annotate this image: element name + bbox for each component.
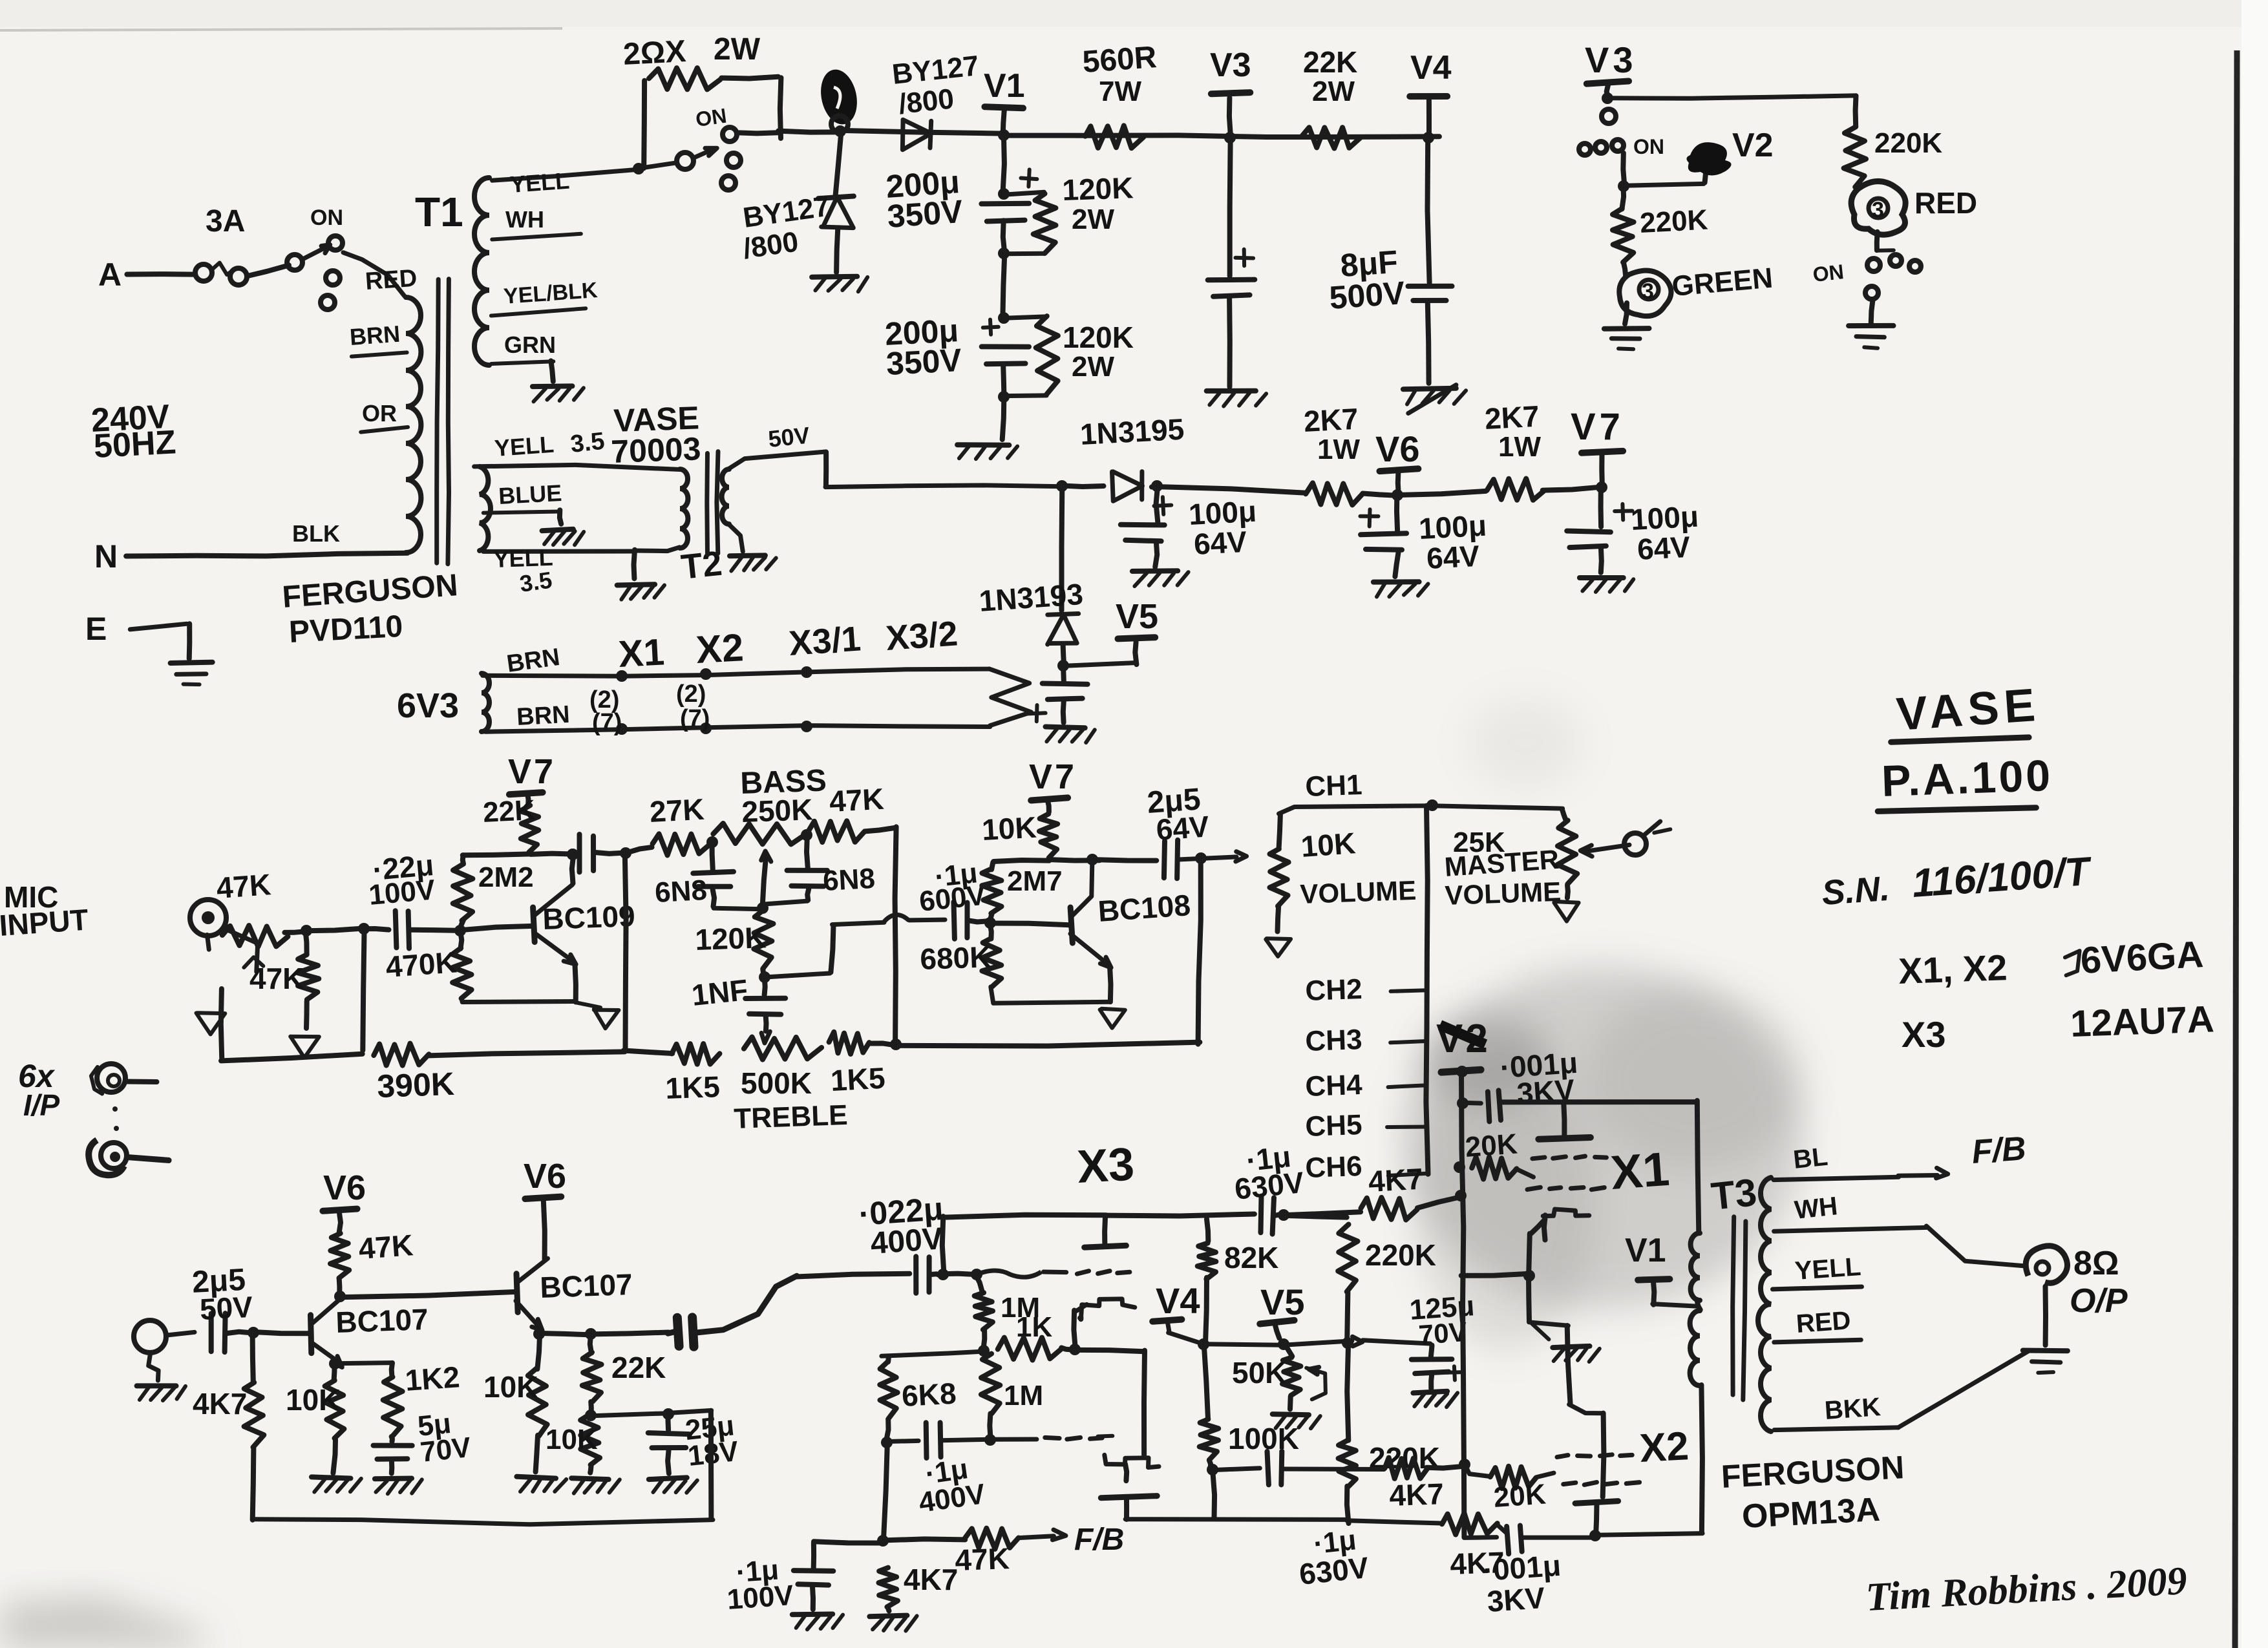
ground arrow BC109 emitter: [575, 1002, 619, 1028]
svg-text:1W: 1W: [1317, 434, 1360, 465]
resistor 1K + node row: [882, 1311, 1081, 1360]
svg-text:2W: 2W: [1312, 76, 1355, 107]
svg-text:GRN: GRN: [504, 332, 556, 358]
capacitor 2u5 64V: [1146, 782, 1247, 878]
capacitor .001u 3KV top: [1457, 1046, 1696, 1122]
svg-text:1NF: 1NF: [690, 973, 750, 1012]
resistor 10K emitter 1: [286, 1358, 361, 1492]
scan shadow bottom-left: [0, 1596, 213, 1648]
svg-text:BKK: BKK: [1824, 1393, 1882, 1425]
svg-text:22K: 22K: [1303, 45, 1357, 79]
label 240V 50Hz: [90, 398, 177, 465]
tap label BLK: [292, 520, 340, 547]
base wire BC108: [990, 924, 1069, 925]
standby switch: [638, 104, 741, 190]
junction to driver rail: [937, 1216, 949, 1280]
wire 50V to diode 1N3193: [1059, 486, 1065, 610]
svg-text:1N3195: 1N3195: [1079, 412, 1185, 451]
lower link wire: [1076, 1350, 1145, 1455]
coupling capacitor to driver: [668, 1276, 796, 1347]
resistor 22K + 10K + 25u 18V: [546, 1333, 666, 1494]
wire V3 to lamps: [1608, 96, 1855, 98]
FB bus: [814, 1539, 965, 1543]
channel labels CH2-CH6: [1305, 806, 1428, 1184]
tube X3 lower triode: [1045, 1436, 1159, 1519]
cathode wire upper: [1074, 1304, 1086, 1349]
diode BY127/800 shunt: [741, 131, 868, 291]
node V4: [1410, 49, 1451, 143]
svg-text:TREBLE: TREBLE: [734, 1099, 849, 1135]
tap label YEL/BLK: [491, 278, 599, 316]
grid wire X3 upper: [942, 1269, 1066, 1280]
tone output jog wire: [765, 914, 945, 977]
capacitor 125u 70V: [1408, 1290, 1476, 1407]
output jack 8 ohm: [2023, 1245, 2128, 1373]
plate rail right vertical: [1697, 1101, 1699, 1233]
capacitor 25u 18V: [589, 1408, 740, 1493]
resistor 47K tone: [809, 782, 895, 842]
resistor 470K: [385, 930, 576, 1002]
svg-text:64V: 64V: [1426, 539, 1481, 575]
svg-text:680K: 680K: [920, 940, 992, 976]
resistor 4K7 top rail: [1283, 1162, 1459, 1220]
tap label GRN + ground: [491, 332, 584, 401]
junction to NFB bus: [358, 923, 370, 1050]
junction down to NFB bus: [620, 847, 631, 1050]
page edge line: [2242, 0, 2268, 1648]
svg-text:V5: V5: [1116, 597, 1158, 636]
svg-text:2ΩX: 2ΩX: [622, 34, 687, 72]
lamp GREEN: [1604, 262, 1774, 350]
capacitor .22u 100V input: [364, 848, 457, 949]
resistor 1M second: [981, 1354, 1043, 1446]
svg-text:100K: 100K: [1228, 1422, 1299, 1455]
resistor 2K7 1W first: [1303, 402, 1362, 505]
svg-text:3: 3: [1872, 198, 1884, 222]
svg-text:1W: 1W: [1498, 431, 1541, 463]
svg-text:X3: X3: [1902, 1014, 1946, 1055]
title VASE underlined: [1891, 679, 2042, 743]
svg-text:4K7: 4K7: [193, 1387, 247, 1421]
svg-text:4K7: 4K7: [904, 1563, 958, 1596]
svg-text:3.5: 3.5: [569, 428, 606, 458]
svg-text:4K7: 4K7: [1450, 1545, 1505, 1581]
node V1 screen tap: [1625, 1232, 1698, 1306]
svg-text:V4: V4: [1156, 1280, 1200, 1321]
svg-text:3: 3: [1642, 279, 1654, 304]
resistor 22K 2W: [1302, 45, 1360, 149]
capacitor V3 decoupling: [1207, 137, 1266, 407]
node V7: [1543, 406, 1624, 493]
svg-text:2K7: 2K7: [1303, 402, 1359, 438]
svg-text:V4: V4: [1410, 49, 1452, 87]
capacitor .22u second + rail: [567, 834, 625, 872]
X2 bottom rail + capacitor .001u 3KV lower: [1465, 1526, 1703, 1618]
6K8 column to FB bus: [884, 1442, 887, 1541]
svg-text:2K7: 2K7: [1484, 399, 1540, 436]
svg-text:390K: 390K: [376, 1066, 454, 1104]
resistor 120K tone: [695, 911, 774, 983]
svg-text:F/B: F/B: [1074, 1523, 1124, 1557]
svg-text:120K: 120K: [1062, 171, 1134, 207]
svg-text:I/P: I/P: [23, 1088, 60, 1122]
svg-text:(7): (7): [592, 709, 622, 736]
node V6 second: [524, 1157, 566, 1260]
svg-text:T1: T1: [415, 189, 463, 235]
capacitor .1u 100V: [726, 1543, 843, 1629]
cathode bus to X2: [1529, 1322, 1604, 1497]
svg-text:V7: V7: [508, 752, 556, 791]
svg-text:70V: 70V: [419, 1431, 473, 1468]
mic jack: [190, 900, 263, 972]
potentiometer TREBLE 500K + 1K5 bus: [624, 1032, 895, 1135]
earth E ground: [85, 611, 213, 684]
driver junction column: [877, 1535, 889, 1547]
junction + wire to 2K7: [1151, 480, 1306, 493]
wire V2 to cathode: [1461, 1274, 1529, 1276]
interstage wire: [339, 1292, 516, 1297]
diode BY127/800 series: [891, 50, 980, 150]
svg-text:47K: 47K: [829, 782, 885, 818]
node V6: [1362, 428, 1419, 501]
svg-text:6V3: 6V3: [397, 686, 459, 725]
svg-text:CH2: CH2: [1305, 973, 1363, 1007]
resistor 10K emitter 2: [483, 1334, 566, 1492]
ink smudge stain: [1403, 966, 1803, 1309]
resistor 220K green branch: [1613, 187, 1709, 262]
svg-text:BL: BL: [1792, 1143, 1829, 1174]
junction base BC108: [984, 917, 996, 929]
svg-text:BC109: BC109: [542, 899, 636, 936]
secondary tap RED: [1774, 1306, 1861, 1342]
junction + resistor 47K shunt: [249, 925, 361, 1058]
svg-text:A: A: [98, 257, 122, 293]
svg-text:V2: V2: [1732, 127, 1774, 164]
tube list X1 X2 6V6GA: [1898, 933, 2204, 991]
potentiometer 10K VOLUME: [1266, 826, 1417, 956]
svg-text:F/B: F/B: [1971, 1130, 2028, 1171]
svg-text:CH3: CH3: [1305, 1024, 1363, 1057]
svg-text:10K: 10K: [483, 1370, 538, 1404]
svg-text:6K8: 6K8: [901, 1377, 957, 1413]
svg-text:S.N.: S.N.: [1821, 869, 1891, 913]
svg-text:12AU7A: 12AU7A: [2070, 998, 2215, 1045]
svg-text:CH1: CH1: [1305, 769, 1363, 803]
svg-text:V6: V6: [323, 1168, 366, 1207]
wire V4 V5 to 125u cap: [1204, 1336, 1430, 1346]
label 120K 2W second: [1063, 321, 1134, 383]
svg-text:82K: 82K: [1224, 1241, 1278, 1274]
fuse 3A: [195, 204, 247, 285]
capacitor .1u 630V lower: [1213, 1452, 1384, 1591]
svg-text:500K: 500K: [741, 1066, 812, 1100]
50V rail wire: [728, 452, 1063, 487]
svg-text:ON: ON: [1812, 260, 1845, 286]
transistor BC109: [533, 849, 636, 964]
resistor 100K: [1200, 1345, 1299, 1518]
svg-text:BC107: BC107: [540, 1267, 633, 1304]
svg-text:BC107: BC107: [335, 1302, 429, 1339]
RCA jack aux 2: [89, 1140, 169, 1175]
svg-text:X1: X1: [1609, 1142, 1671, 1199]
svg-text:350V: 350V: [886, 193, 964, 235]
svg-text:500V: 500V: [1328, 275, 1406, 316]
V2 vertical: [1461, 1071, 1464, 1537]
svg-text:50V: 50V: [767, 421, 811, 452]
svg-text:6N8: 6N8: [654, 874, 708, 909]
svg-text:50K: 50K: [1232, 1356, 1286, 1389]
label 120K 2W first: [1062, 171, 1134, 235]
svg-text:47K: 47K: [215, 867, 272, 905]
svg-text:560R: 560R: [1081, 40, 1158, 79]
svg-text:4K7: 4K7: [1368, 1162, 1424, 1198]
svg-text:3KV: 3KV: [1486, 1581, 1546, 1618]
label MIC INPUT: [0, 880, 89, 942]
svg-text:X3: X3: [1076, 1138, 1136, 1193]
svg-text:10K: 10K: [1300, 826, 1357, 863]
svg-text:V7: V7: [1571, 406, 1624, 448]
ground arrow BC108: [1100, 1009, 1125, 1028]
capacitor 200u 350V second: [884, 312, 1058, 403]
svg-text:PVD110: PVD110: [288, 609, 404, 650]
svg-text:V3: V3: [1210, 47, 1251, 84]
capacitor 6N8 first: [654, 836, 762, 909]
svg-text:RED: RED: [1914, 186, 1977, 220]
svg-text:X1, X2: X1, X2: [1898, 947, 2008, 991]
svg-text:50HZ: 50HZ: [93, 423, 177, 465]
svg-text:47K: 47K: [357, 1228, 414, 1265]
node V3 lamp feed: [1585, 39, 1637, 104]
resistor 47K to FB: [955, 1523, 1125, 1577]
svg-text:7W: 7W: [1099, 76, 1141, 107]
switch contacts left: [1579, 109, 1664, 192]
svg-text:OPM13A: OPM13A: [1741, 1491, 1881, 1536]
svg-text:BLK: BLK: [292, 520, 340, 547]
svg-text:CH5: CH5: [1305, 1109, 1363, 1143]
svg-text:X2: X2: [1638, 1424, 1690, 1471]
switch contacts right + ground: [1812, 250, 1921, 348]
svg-text:X2: X2: [695, 626, 745, 671]
capacitor 200u 350V first: [885, 164, 1056, 259]
tone right vertical: [890, 827, 902, 1050]
svg-text:(7): (7): [680, 705, 710, 732]
tap label BRN: [349, 321, 407, 357]
svg-text:YELL: YELL: [509, 167, 571, 198]
node V1: [984, 67, 1025, 141]
svg-text:6V6GA: 6V6GA: [2079, 933, 2204, 982]
serial number S.N. 116/100/T: [1821, 849, 2094, 913]
node V6 + resistor 47K: [323, 1168, 414, 1302]
resistor 27K: [625, 792, 710, 856]
pin labels BRN (2) (7): [505, 644, 710, 736]
resistor 82K: [1198, 1219, 1279, 1341]
X3 bottom rail: [1125, 1513, 1507, 1534]
svg-text:400V: 400V: [869, 1221, 944, 1261]
svg-text:220K: 220K: [1365, 1238, 1436, 1272]
svg-text:YELL: YELL: [1794, 1252, 1862, 1285]
resistor 1K2 + capacitor 5u 70V: [335, 1360, 473, 1494]
dots: [112, 1106, 119, 1131]
resistor 220K red branch: [1844, 96, 1943, 187]
svg-text:8Ω: 8Ω: [2073, 1245, 2119, 1282]
capacitor .1u 400V lower grid: [881, 1422, 1037, 1519]
wire V1 down: [1003, 134, 1004, 193]
capacitor 100u 64V first: [1121, 485, 1257, 587]
svg-text:YELL: YELL: [494, 431, 555, 461]
svg-text:OR: OR: [362, 400, 397, 427]
svg-text:1K2: 1K2: [404, 1360, 461, 1397]
resistor 20K grid X2: [1465, 1464, 1554, 1514]
node A (mains active): [98, 257, 195, 293]
svg-text:6N8: 6N8: [822, 863, 876, 897]
resistor 220K upper: [1283, 1216, 1436, 1349]
svg-text:BRN: BRN: [516, 701, 570, 731]
svg-text:P.A.100: P.A.100: [1881, 751, 2053, 806]
transistor BC108: [1070, 860, 1192, 967]
tap label YELL 3.5 bottom: [483, 544, 635, 597]
transformer T1: [406, 178, 491, 732]
svg-text:X1: X1: [617, 631, 665, 675]
label 6x I/P: [18, 1058, 60, 1122]
svg-text:47K: 47K: [955, 1541, 1010, 1577]
svg-text:WH: WH: [505, 206, 544, 233]
secondary tap YELL: [1773, 1252, 1862, 1289]
svg-text:BRN: BRN: [349, 321, 401, 350]
node V3 junction: [1210, 47, 1251, 143]
driver top rail: [944, 1214, 1255, 1218]
resistor 680K: [920, 922, 1111, 1003]
svg-text:ON: ON: [310, 206, 343, 230]
svg-text:10K: 10K: [286, 1383, 340, 1417]
resistor 560R 7W: [1081, 40, 1158, 148]
capacitor 6N8 second: [765, 835, 876, 904]
capacitor 100u 64V third: [1567, 487, 1699, 592]
tube X1 output: [1527, 1103, 1671, 1240]
wire CH1: [1279, 769, 1563, 847]
wire N: [94, 538, 408, 575]
svg-text:220K: 220K: [1639, 204, 1709, 239]
transistor BC107 first: [253, 1297, 429, 1368]
transistor BC107 second: [516, 1258, 633, 1330]
svg-text:47K: 47K: [249, 962, 304, 995]
svg-text:22K: 22K: [482, 794, 536, 829]
capacitor .022u 400V: [796, 1190, 945, 1293]
bypass box wire: [253, 1410, 713, 1524]
svg-text:V1: V1: [1625, 1232, 1666, 1269]
svg-text:1K5: 1K5: [830, 1061, 886, 1097]
node V7 second + 10K: [981, 757, 1077, 858]
capacitor .1u 630V top: [1233, 1139, 1306, 1234]
svg-text:64V: 64V: [1193, 525, 1248, 561]
resistor 20ohm 2W bypass: [622, 32, 781, 174]
HT rail wire: [737, 132, 778, 133]
junction dot 50V: [1056, 480, 1068, 492]
svg-text:120K: 120K: [1063, 321, 1134, 354]
connector V2 blob: [1624, 127, 1773, 185]
svg-text:V5: V5: [1260, 1282, 1305, 1322]
NFB bus + resistor 390K: [221, 1044, 625, 1104]
svg-text:22K: 22K: [611, 1351, 666, 1384]
svg-text:V3: V3: [1585, 39, 1637, 80]
svg-text:INPUT: INPUT: [0, 902, 89, 942]
svg-text:CH6: CH6: [1305, 1150, 1363, 1184]
tube X2 output: [1557, 1424, 1690, 1541]
svg-text:ON: ON: [694, 104, 728, 131]
phone jack input: [134, 1320, 195, 1400]
node V2: [1436, 1017, 1490, 1077]
svg-text:220K: 220K: [1874, 127, 1942, 159]
transformer T3: [1690, 1170, 1771, 1532]
svg-text:20K: 20K: [1464, 1128, 1518, 1163]
BC108 collector rail: [993, 854, 1156, 865]
svg-text:4K7: 4K7: [1389, 1477, 1445, 1512]
svg-text:10K: 10K: [546, 1424, 598, 1455]
label FERGUSON PVD110: [281, 568, 459, 650]
svg-text:ON: ON: [1633, 135, 1664, 158]
resistor 47K series mic: [215, 867, 288, 947]
svg-text:RED: RED: [365, 264, 418, 295]
svg-text:1K5: 1K5: [665, 1070, 721, 1105]
svg-text:64V: 64V: [1637, 530, 1691, 566]
svg-text:BLUE: BLUE: [498, 480, 562, 509]
capacitor at V5: [1028, 665, 1095, 743]
svg-text:VOLUME: VOLUME: [1445, 876, 1562, 911]
tap label BLUE + ground: [483, 480, 584, 545]
capacitor 1NF: [690, 973, 786, 1043]
base wire: [460, 926, 533, 930]
potentiometer 25K MASTER VOLUME: [1443, 810, 1578, 921]
svg-text:E: E: [85, 611, 107, 647]
svg-text:/800: /800: [897, 83, 955, 120]
secondary tap BL to F/B: [1774, 1130, 2027, 1179]
svg-text:V7: V7: [1029, 757, 1077, 796]
X1 cathode ground: [1523, 1220, 1600, 1362]
jack NFB vertical: [221, 989, 222, 1060]
node V4 driver: [1152, 1280, 1209, 1350]
svg-text:CH4: CH4: [1305, 1069, 1363, 1103]
svg-text:50V: 50V: [199, 1290, 254, 1326]
svg-text:350V: 350V: [885, 342, 963, 382]
resistor 2M2: [453, 855, 534, 931]
tube X3 upper triode: [1077, 1216, 1134, 1320]
svg-text:20K: 20K: [1492, 1478, 1547, 1514]
secondary tap WH to jack: [1774, 1192, 2023, 1265]
connector blob 2: [816, 66, 862, 137]
BC108 feedback box: [896, 852, 1207, 1046]
svg-text:64V: 64V: [1155, 809, 1211, 847]
svg-text:V6: V6: [1375, 428, 1420, 469]
tap label OR: [361, 400, 408, 432]
secondary tap BKK: [1774, 1350, 2030, 1430]
potentiometer BASS 250K: [713, 763, 827, 914]
capacitor .1u 600V: [918, 857, 988, 938]
tap label WH: [492, 206, 581, 240]
resistor 2M7: [982, 862, 1062, 922]
ground arrow mic jack: [196, 1013, 226, 1034]
emitter junction 2: [533, 1328, 668, 1340]
capacitor 100u 64V second: [1361, 496, 1488, 597]
resistor 20K grid X1: [1454, 1128, 1534, 1179]
svg-text:10K: 10K: [981, 810, 1037, 847]
svg-text:VASE: VASE: [1895, 679, 2042, 741]
junction base BC109: [454, 925, 466, 936]
svg-text:2W: 2W: [714, 32, 761, 67]
title P.A.100 underlined: [1878, 751, 2053, 812]
labels X1 X2 X3/1 X3/2: [617, 614, 959, 675]
svg-text:3.5: 3.5: [518, 566, 553, 597]
diode 1N3195: [1063, 412, 1185, 502]
svg-text:V6: V6: [524, 1157, 566, 1196]
